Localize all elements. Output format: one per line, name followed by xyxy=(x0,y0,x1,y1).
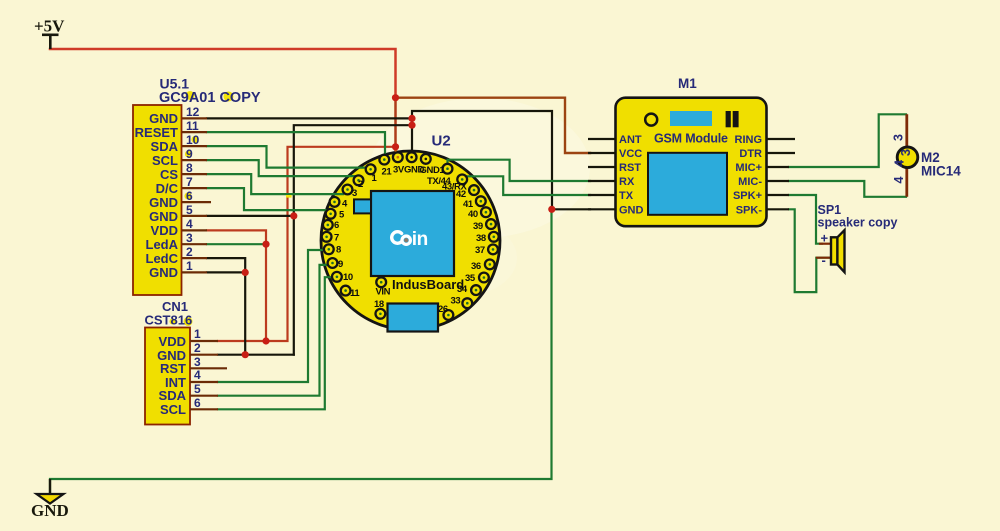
wire green U5.1 RESET pin11 to pad21 xyxy=(207,132,385,158)
wire green GSM SPK+ to speaker xyxy=(789,195,822,244)
svg-text:4: 4 xyxy=(186,217,193,231)
junction dots xyxy=(242,94,556,358)
wire green GSM MIC- to M2 pin4 xyxy=(789,181,906,197)
svg-text:9: 9 xyxy=(186,147,193,161)
svg-text:39: 39 xyxy=(473,221,483,232)
wire green U5.1 CS pin8 to pad3 xyxy=(207,174,343,194)
wire red +5V branch to CN1 VDD xyxy=(218,147,396,341)
svg-text:VIN: VIN xyxy=(376,287,391,298)
U5.1 pin stubs xyxy=(182,118,211,272)
wire black CN1 GND row xyxy=(218,354,294,356)
wire black U5.1 pin12 GND xyxy=(207,117,412,119)
svg-text:GND: GND xyxy=(149,265,178,280)
svg-text:3: 3 xyxy=(892,134,906,141)
svg-text:LedC: LedC xyxy=(146,251,179,266)
CN1 pin numbers xyxy=(194,327,201,410)
svg-text:GND1: GND1 xyxy=(420,165,446,176)
svg-text:26: 26 xyxy=(438,304,448,315)
svg-text:9: 9 xyxy=(338,259,343,270)
wire orange stub into 3V pad xyxy=(395,150,397,158)
svg-text:-: - xyxy=(822,253,826,268)
wire +5V red main: +5V down to 3V pad of U2 xyxy=(50,49,396,98)
wire green U5.1 SCL pin9 to pad2 xyxy=(207,160,355,176)
svg-text:6: 6 xyxy=(334,220,339,231)
GSM blue bar xyxy=(670,111,712,126)
svg-text:21: 21 xyxy=(382,167,393,178)
svg-text:RST: RST xyxy=(160,361,186,376)
svg-text:18: 18 xyxy=(374,299,384,310)
svg-text:6: 6 xyxy=(194,396,201,410)
pad GND1 xyxy=(421,154,431,164)
wire black U5.1 LedC pin2 xyxy=(207,258,245,272)
coin USB connector xyxy=(388,304,439,332)
svg-text:MIC14: MIC14 xyxy=(921,164,961,179)
pad 37 xyxy=(488,245,498,255)
wire green U5.1 LedA pin3 xyxy=(207,243,266,245)
node LedA/VDD junction xyxy=(262,241,269,248)
svg-text:GND: GND xyxy=(619,204,644,216)
wire dark red speaker minus stub xyxy=(817,257,831,259)
U5.1 pin numbers xyxy=(186,105,200,273)
node GND junction A xyxy=(408,115,415,122)
speaker cone xyxy=(837,230,844,272)
svg-text:GND: GND xyxy=(31,501,69,520)
svg-text:MIC+: MIC+ xyxy=(735,162,762,174)
svg-text:8: 8 xyxy=(186,161,193,175)
pad 41 xyxy=(476,196,486,206)
pad GND xyxy=(407,152,417,162)
svg-text:VDD: VDD xyxy=(151,223,178,238)
M2 body circle xyxy=(897,147,918,168)
svg-text:in: in xyxy=(412,229,428,250)
svg-text:VDD: VDD xyxy=(159,334,186,349)
svg-text:7: 7 xyxy=(186,175,193,189)
svg-text:2: 2 xyxy=(194,341,201,355)
pad 1 xyxy=(366,164,376,174)
wire black U5.1 pin5 GND xyxy=(207,215,294,217)
SP1 speaker xyxy=(818,203,898,272)
pad 35 xyxy=(479,273,489,283)
svg-text:1: 1 xyxy=(186,259,193,273)
node VDD junction CN1 xyxy=(262,337,269,344)
wire black GND bus to coin GND pad and GSM xyxy=(412,111,590,209)
svg-text:RST: RST xyxy=(619,162,641,174)
GSM pin stubs xyxy=(588,139,795,209)
svg-text:10: 10 xyxy=(186,133,200,147)
pad 2 xyxy=(354,175,364,185)
svg-text:M1: M1 xyxy=(678,76,697,91)
wire green CN1 INT to pad8 xyxy=(218,250,324,382)
pad 42 xyxy=(469,185,479,195)
svg-text:CS: CS xyxy=(160,167,178,182)
wire green CN1 SCL to pad10 xyxy=(218,277,332,409)
svg-text:SPK-: SPK- xyxy=(736,204,763,216)
svg-text:IndusBoard: IndusBoard xyxy=(392,277,464,292)
wire green U5.1 D/C pin7 to pad5 xyxy=(207,188,326,210)
svg-text:3: 3 xyxy=(898,149,913,156)
GSM led circle xyxy=(645,114,657,126)
pad 3V xyxy=(393,152,403,162)
svg-text:3: 3 xyxy=(352,188,357,199)
wire green CN1 SDA to pad9 xyxy=(218,265,328,396)
coin pad center holes xyxy=(325,156,495,316)
svg-text:RESET: RESET xyxy=(135,125,178,140)
GSM blue square xyxy=(648,153,727,215)
svg-text:RING: RING xyxy=(735,134,763,146)
svg-text:11: 11 xyxy=(186,119,199,133)
pad VIN xyxy=(376,277,386,287)
U5.1 GC9A01 COPY display connector xyxy=(133,76,261,296)
svg-text:37: 37 xyxy=(475,245,485,256)
M1 GSM Module xyxy=(616,76,767,226)
wire red U5.1 VDD pin4 down to CN1 VDD xyxy=(207,230,266,341)
svg-text:GND: GND xyxy=(149,209,178,224)
pad 4 xyxy=(330,197,340,207)
svg-text:SCL: SCL xyxy=(152,153,178,168)
svg-text:1: 1 xyxy=(194,327,201,341)
wire brown +5V to GSM VCC xyxy=(396,98,591,153)
wire black x294 GND riser xyxy=(294,125,412,355)
svg-text:D/C: D/C xyxy=(156,181,179,196)
GND ground symbol xyxy=(31,479,69,520)
wire dark red speaker plus stub xyxy=(820,243,831,245)
svg-text:7: 7 xyxy=(334,233,339,244)
pad 8 xyxy=(324,244,334,254)
pad 38 xyxy=(489,232,499,242)
pad 43/RX xyxy=(457,175,467,185)
U5.1 pin labels xyxy=(135,111,179,280)
wire green coin TX/44 to GSM RX xyxy=(448,160,591,181)
svg-text:6: 6 xyxy=(186,189,193,203)
svg-text:ANT: ANT xyxy=(619,134,642,146)
svg-text:3: 3 xyxy=(194,355,201,369)
svg-text:8: 8 xyxy=(336,245,341,256)
+5V power symbol xyxy=(34,17,65,50)
CN1 pin stubs xyxy=(190,341,227,409)
pad 36 xyxy=(485,260,495,270)
svg-text:speaker copy: speaker copy xyxy=(818,216,898,230)
wire green GSM MIC+ to M2 pin3 xyxy=(789,114,906,167)
svg-text:U2: U2 xyxy=(432,133,451,150)
pad 5 xyxy=(326,209,336,219)
pad 7 xyxy=(322,232,332,242)
svg-text:34: 34 xyxy=(457,284,468,295)
svg-text:SPK+: SPK+ xyxy=(733,190,762,202)
svg-text:2: 2 xyxy=(186,245,193,259)
svg-text:DTR: DTR xyxy=(739,148,762,160)
coin pads xyxy=(322,152,499,320)
svg-text:GND: GND xyxy=(149,111,178,126)
svg-text:CST816: CST816 xyxy=(145,313,193,328)
svg-text:35: 35 xyxy=(465,273,476,284)
pad 10 xyxy=(332,272,342,282)
svg-text:TX: TX xyxy=(619,190,634,202)
GSM black bars xyxy=(726,111,731,127)
svg-text:40: 40 xyxy=(468,209,478,220)
node GND junction CN1 xyxy=(242,351,249,358)
svg-text:10: 10 xyxy=(343,272,353,283)
pad 9 xyxy=(328,258,338,268)
M2 MIC14 microphone xyxy=(892,114,962,197)
node GND junction pin5 xyxy=(290,212,297,219)
U2 IndusBoard Coin body circle xyxy=(321,151,500,330)
svg-text:MIC-: MIC- xyxy=(738,176,762,188)
pad 3 xyxy=(343,185,353,195)
node GND junction pin1/2 xyxy=(242,269,249,276)
svg-text:GC9A01 COPY: GC9A01 COPY xyxy=(159,90,261,106)
pad 18 xyxy=(376,309,386,319)
wire black U5.1 pin1 GND down to CN1 GND xyxy=(207,272,245,354)
pad 11 xyxy=(341,286,351,296)
coin MCU blue square xyxy=(371,191,454,276)
node GND junction GSM xyxy=(548,206,555,213)
GSM pin labels xyxy=(619,134,644,216)
svg-text:5: 5 xyxy=(186,203,193,217)
pad 39 xyxy=(486,219,496,229)
svg-text:SDA: SDA xyxy=(151,139,179,154)
speaker body xyxy=(831,237,838,264)
svg-text:RX: RX xyxy=(619,176,635,188)
svg-text:GSM Module: GSM Module xyxy=(654,132,728,146)
node +5V/VDD junction xyxy=(392,143,399,150)
yellow artifacts dots xyxy=(170,91,292,326)
svg-text:5: 5 xyxy=(194,382,201,396)
svg-text:38: 38 xyxy=(476,233,486,244)
svg-text:SDA: SDA xyxy=(159,388,187,403)
pad 33 xyxy=(462,298,472,308)
svg-text:33: 33 xyxy=(451,296,461,307)
svg-text:LedA: LedA xyxy=(146,237,179,252)
U2 IndusBoard Coin xyxy=(354,133,464,332)
svg-text:36: 36 xyxy=(471,261,481,272)
pad 6 xyxy=(323,220,333,230)
wire green U5.1 SDA pin10 to pad1 xyxy=(207,146,367,168)
svg-text:VCC: VCC xyxy=(619,148,642,160)
wire green coin 43/RX to GSM TX xyxy=(459,176,590,195)
pad 40 xyxy=(481,207,491,217)
M2 pin line xyxy=(905,114,908,197)
node +5V/VCC junction xyxy=(392,94,399,101)
svg-text:11: 11 xyxy=(350,288,360,299)
svg-text:GND: GND xyxy=(149,195,178,210)
CN1 CST816 touch connector xyxy=(145,299,193,425)
svg-text:12: 12 xyxy=(186,105,200,119)
svg-text:4: 4 xyxy=(892,159,907,167)
wire green ground rail xyxy=(50,209,552,493)
svg-text:3: 3 xyxy=(186,231,193,245)
pad 34 xyxy=(471,285,481,295)
coin side tab xyxy=(354,199,371,213)
svg-text:4: 4 xyxy=(892,177,906,184)
wire green GSM SPK- to speaker xyxy=(789,209,830,292)
CN1 pin labels xyxy=(157,334,186,417)
node GND junction B xyxy=(408,122,415,129)
coin pad labels xyxy=(334,165,486,316)
pad 26 xyxy=(444,310,454,320)
svg-text:SCL: SCL xyxy=(160,402,186,417)
svg-text:+5V: +5V xyxy=(34,17,65,36)
svg-text:+: + xyxy=(821,231,829,246)
pad 21 xyxy=(379,155,389,165)
svg-text:2: 2 xyxy=(358,179,363,190)
pad TX/44 xyxy=(443,164,453,174)
Coin logo text xyxy=(392,232,402,244)
svg-text:4: 4 xyxy=(194,368,201,382)
wire red vertical to 3V xyxy=(394,98,397,150)
